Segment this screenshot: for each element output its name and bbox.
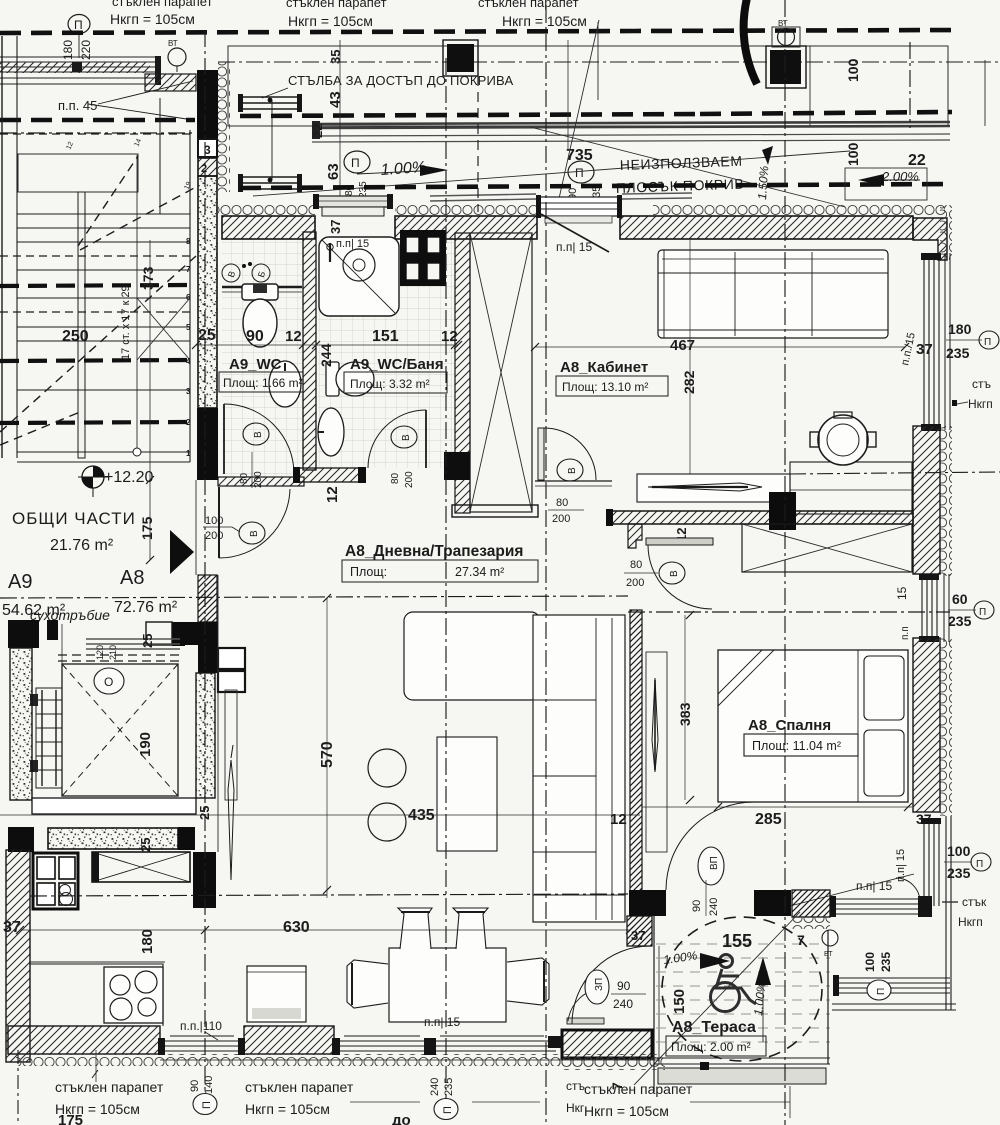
- bedroom door bubble B: [659, 562, 685, 584]
- svg-text:Площ: 13.10 m²: Площ: 13.10 m²: [562, 380, 648, 394]
- axis bubble П win2: [434, 1099, 458, 1120]
- svg-text:240: 240: [429, 1078, 441, 1096]
- parapet rail band: [312, 122, 950, 142]
- kabinet door bubble B: [557, 459, 583, 481]
- svg-text:В: В: [249, 530, 260, 537]
- svg-text:А8_Спалня: А8_Спалня: [748, 717, 831, 734]
- dim line y815: [0, 814, 640, 816]
- terrace area box: [666, 1036, 766, 1056]
- dark window grid 2x2: [400, 230, 446, 286]
- svg-text:25: 25: [140, 634, 155, 648]
- svg-text:35: 35: [328, 50, 343, 64]
- svg-text:1.50%: 1.50%: [755, 165, 771, 200]
- terrace parapet band: [658, 1068, 826, 1084]
- insulation strip left wall: [218, 62, 230, 192]
- svg-text:60: 60: [952, 591, 968, 607]
- chaise lounge: [404, 612, 540, 700]
- living area box: [342, 560, 538, 582]
- wall face living bottom interior: [30, 961, 165, 963]
- svg-text:5: 5: [186, 323, 191, 332]
- window D bedroom bottom: [834, 899, 928, 914]
- concrete column speckled: [198, 176, 217, 408]
- pillow 1: [864, 656, 904, 720]
- svg-text:100: 100: [863, 952, 877, 972]
- corner window arc mark: [896, 878, 920, 902]
- svg-text:27.34 m²: 27.34 m²: [455, 565, 504, 579]
- svg-text:1.00%: 1.00%: [380, 159, 426, 179]
- window C bedroom right: [924, 822, 939, 906]
- elevator O bubble: [94, 668, 124, 694]
- svg-text:А9_WC/Баня: А9_WC/Баня: [350, 356, 444, 373]
- svg-text:п.п| 15: п.п| 15: [336, 238, 369, 250]
- pouf circle 2: [368, 803, 406, 841]
- door arc living-terrace big: [572, 946, 650, 1024]
- dining table: [389, 948, 506, 1022]
- svg-text:80: 80: [390, 472, 401, 484]
- slope box 2.00%: [845, 168, 927, 200]
- axis horizontal y896: [30, 894, 628, 896]
- right wall hatch top (kabinet corner): [913, 218, 947, 260]
- kitchen counter bottom-left: [30, 964, 163, 1026]
- shaft bottom wall: [452, 505, 538, 517]
- svg-text:180: 180: [139, 929, 156, 954]
- svg-text:ВП: ВП: [709, 856, 720, 870]
- duct box 2: [198, 158, 217, 176]
- right insulation strip seg3: [940, 638, 952, 816]
- right corner frame: [945, 816, 947, 1010]
- svg-text:А9_WC: А9_WC: [229, 356, 282, 373]
- dim line vertical x597: [567, 40, 569, 150]
- roof thick dashed overlays on stair: [0, 285, 190, 423]
- svg-text:100: 100: [845, 142, 861, 166]
- hall wall black stub: [172, 622, 218, 645]
- roof section thick dashed line 1: [0, 30, 955, 33]
- svg-text:П: П: [74, 18, 83, 32]
- svg-text:п.п| 15: п.п| 15: [556, 240, 592, 254]
- svg-text:П: П: [876, 988, 887, 995]
- svg-text:467: 467: [670, 337, 695, 354]
- svg-text:П: П: [575, 166, 584, 180]
- svg-text:435: 435: [408, 807, 435, 824]
- svg-text:п.п: п.п: [900, 626, 911, 640]
- svg-text:200: 200: [404, 471, 415, 488]
- wall T-stub: [628, 524, 642, 548]
- svg-text:151: 151: [372, 328, 399, 345]
- insulation scallop band top wall seg1: [218, 204, 315, 216]
- svg-text:П: П: [979, 607, 986, 618]
- niche wall lines below shaft: [535, 480, 612, 482]
- svg-text:6: 6: [186, 293, 191, 302]
- WC sink: [269, 361, 301, 407]
- svg-text:80: 80: [556, 497, 568, 509]
- axis bubble П top-left: [68, 15, 90, 34]
- svg-text:235: 235: [948, 613, 972, 629]
- axis vertical x445: [445, 58, 447, 1098]
- axis vertical x478 top dashes: [477, 60, 479, 212]
- left exterior wall hatch: [6, 850, 30, 1062]
- terrace door ВП arc: [666, 802, 754, 890]
- svg-text:25: 25: [138, 838, 153, 852]
- svg-text:80: 80: [630, 559, 642, 571]
- hall cabinet boxes: [218, 648, 245, 669]
- svg-text:О: О: [104, 675, 113, 689]
- svg-text:37: 37: [916, 341, 933, 358]
- svg-text:Площ: 11.04 m²: Площ: 11.04 m²: [752, 739, 841, 753]
- axis vertical x205: [204, 30, 206, 1094]
- door bubble B entrance: [239, 522, 265, 544]
- svg-text:12: 12: [285, 328, 302, 345]
- svg-text:стъклен парапет: стъклен парапет: [478, 0, 579, 10]
- vent circle terrace: [822, 930, 838, 946]
- slope diagonal line right: [530, 127, 845, 207]
- svg-text:240: 240: [613, 997, 633, 1011]
- svg-text:3: 3: [186, 387, 191, 396]
- svg-text:до: до: [392, 1112, 411, 1125]
- svg-text:п.п.|110: п.п.|110: [180, 1019, 222, 1033]
- svg-text:П: П: [976, 859, 983, 870]
- svg-text:37: 37: [631, 928, 645, 943]
- svg-text:стък: стък: [962, 895, 987, 909]
- banya door arc: [368, 410, 426, 468]
- entrance door leaf: [218, 487, 220, 558]
- bedroom area box: [744, 734, 858, 756]
- X-brace cabinet: [92, 852, 190, 882]
- svg-text:Нкгп = 105см: Нкгп = 105см: [502, 13, 587, 29]
- svg-text:630: 630: [283, 919, 310, 936]
- black duct in wall: [769, 492, 796, 530]
- stair right boundary line: [189, 130, 191, 462]
- sofa vertical: [533, 615, 625, 922]
- terrace deck lines: [656, 944, 830, 1042]
- landing circle: [133, 448, 141, 456]
- svg-text:175: 175: [139, 516, 155, 540]
- svg-text:П: П: [201, 1101, 213, 1109]
- roof section thick dashed line 2: [0, 118, 195, 123]
- terrace right edge: [827, 930, 829, 1064]
- svg-text:стъклен парапет: стъклен парапет: [286, 0, 387, 10]
- svg-text:90: 90: [691, 900, 703, 912]
- WC bubbles: [222, 264, 240, 282]
- elevator car: [62, 664, 178, 796]
- plant shape: [225, 690, 237, 800]
- WC area box: [219, 372, 303, 392]
- roof ladder upper: [238, 97, 302, 109]
- entrance door swing arc: [219, 489, 290, 558]
- dining chair left: [347, 960, 388, 1008]
- svg-text:190: 190: [137, 732, 154, 757]
- WC door leaf: [223, 404, 225, 474]
- dining chair top1: [398, 908, 432, 949]
- WC door arc: [224, 404, 294, 474]
- window A kabinet right: [924, 258, 939, 426]
- svg-text:373: 373: [140, 266, 156, 290]
- svg-text:стъ: стъ: [972, 377, 991, 391]
- left shaft wall speckled: [10, 648, 32, 800]
- svg-text:155: 155: [722, 931, 752, 951]
- svg-text:235: 235: [879, 952, 893, 972]
- black column living corner: [193, 852, 216, 908]
- svg-text:570: 570: [319, 741, 336, 768]
- svg-text:17 ст. х 17 к 29: 17 ст. х 17 к 29: [120, 285, 132, 360]
- window kitchen п.п.110: [162, 1041, 242, 1051]
- benchmark +12.20: [82, 466, 104, 488]
- svg-text:ВТ: ВТ: [824, 951, 833, 958]
- stair stringer: [78, 192, 85, 458]
- roof parapet bars above kabinet: [430, 193, 692, 201]
- svg-text:22: 22: [310, 124, 325, 138]
- svg-text:ВТ: ВТ: [168, 39, 178, 48]
- axis bubble П win1: [193, 1094, 217, 1115]
- parapet band left: [0, 57, 160, 84]
- window B outer frame: [943, 574, 945, 642]
- svg-text:100: 100: [205, 515, 223, 527]
- terrace right window D2: [836, 978, 950, 993]
- kabinet sofa: [658, 250, 888, 338]
- svg-text:Площ: 1.66 m²: Площ: 1.66 m²: [223, 376, 303, 390]
- dining chair right: [507, 958, 549, 1005]
- ВП bubble: [698, 847, 724, 885]
- svg-text:43: 43: [327, 91, 344, 108]
- bed: [718, 650, 908, 802]
- banya sink: [318, 408, 344, 456]
- svg-text:15: 15: [895, 586, 909, 600]
- chain axis kabinet counter: [790, 472, 1000, 474]
- steep leader line: [556, 20, 599, 212]
- kabinet desk: [637, 474, 790, 502]
- svg-text:п.п| 15: п.п| 15: [424, 1015, 460, 1029]
- sill lines below windows: [160, 1059, 660, 1061]
- svg-text:244: 244: [318, 343, 334, 367]
- svg-text:А9: А9: [8, 571, 32, 593]
- stair number labels: [186, 237, 191, 458]
- black square chimney right: [766, 46, 806, 88]
- living terrace door leaf: [567, 1018, 604, 1024]
- dining chair top2: [453, 908, 488, 949]
- cooking pot: [818, 415, 868, 465]
- svg-text:12: 12: [324, 486, 341, 503]
- right wall hatch bedroom: [913, 638, 940, 812]
- stair upper landing rect: [18, 154, 138, 192]
- duct box 3: [198, 139, 217, 157]
- bedroom bottom wall black R: [754, 890, 791, 916]
- svg-text:250: 250: [62, 328, 89, 345]
- bottom exterior wall hatch: [8, 1026, 160, 1054]
- svg-text:стъ: стъ: [566, 1079, 585, 1093]
- svg-text:Нкгп = 105см: Нкгп = 105см: [288, 13, 373, 29]
- shower cabin: [319, 237, 399, 316]
- svg-text:210: 210: [108, 645, 118, 660]
- roof edge rectangle: [228, 46, 948, 126]
- svg-text:п.п. 45: п.п. 45: [58, 98, 97, 113]
- svg-text:63: 63: [325, 163, 342, 180]
- black curved pipe top: [744, 0, 757, 84]
- roof ladder lower: [238, 177, 302, 189]
- right insulation strip seg1: [940, 205, 952, 260]
- svg-text:235: 235: [946, 345, 970, 361]
- hatched block left of wall: [145, 74, 196, 91]
- insulation scallop band top wall seg2: [395, 204, 538, 216]
- bottom wall hatch pier mid: [244, 1026, 334, 1054]
- svg-text:ЗП: ЗП: [594, 978, 605, 991]
- roof section thick dashed line 3: [240, 184, 952, 188]
- svg-text:90: 90: [246, 328, 264, 345]
- svg-text:стъклен парапет: стъклен парапет: [112, 0, 213, 9]
- svg-text:Нкг: Нкг: [566, 1101, 585, 1115]
- WC floor tiles: [222, 240, 302, 476]
- svg-text:12: 12: [610, 811, 627, 828]
- hall wall hatch above corridor: [198, 575, 217, 622]
- wall between WC and Banya: [303, 232, 316, 470]
- coffee table: [437, 737, 497, 851]
- axis bubble П mid: [568, 161, 594, 183]
- svg-text:Нкгп: Нкгп: [958, 915, 983, 929]
- svg-text:100: 100: [845, 58, 861, 82]
- window B 60: [922, 578, 937, 638]
- window A outer frame: [944, 253, 946, 430]
- hatched top wall seg3: [620, 216, 913, 239]
- shaft box with X: [470, 233, 532, 512]
- svg-text:21.76 m²: 21.76 m²: [50, 537, 114, 554]
- stair cross brace X: [137, 298, 190, 360]
- axis bubble П small w numbers 43/35/22/63: [344, 151, 370, 173]
- dim line bottom: [350, 1101, 420, 1103]
- slope diagonal line long: [253, 151, 850, 196]
- insulation scallop band bottom: [16, 1054, 661, 1066]
- stair treads: [17, 214, 190, 462]
- svg-text:В: В: [253, 431, 264, 438]
- svg-text:Площ: 3.32 m²: Площ: 3.32 m²: [350, 377, 430, 391]
- left wall black bottom: [197, 408, 218, 480]
- pouf circle 1: [368, 749, 406, 787]
- thin dashed line left: [0, 133, 195, 135]
- dim line WC row: [196, 344, 458, 346]
- svg-text:Нкгп: Нкгп: [968, 397, 993, 411]
- slope arrow right: [420, 165, 448, 176]
- ЗП bubble: [585, 970, 609, 1004]
- svg-text:В: В: [401, 434, 412, 441]
- concrete band below elevator: [48, 828, 178, 849]
- blanket fold: [718, 650, 762, 694]
- bedroom door arc: [648, 545, 712, 609]
- terrace left edge: [653, 916, 655, 1092]
- axis vertical x18 bottom: [17, 1050, 19, 1125]
- axis vertical x785: [784, 0, 786, 1125]
- roof access door window: [315, 196, 391, 207]
- axis horizontal y597 left: [0, 596, 628, 598]
- wall face corridor: [195, 480, 197, 575]
- svg-text:2: 2: [201, 163, 207, 175]
- hatched top wall seg1: [222, 216, 315, 239]
- top window to kabinet: [538, 197, 620, 216]
- kabinet-living door leaf: [538, 428, 544, 480]
- wall face living left: [217, 575, 219, 852]
- WC bottom wall: [218, 477, 304, 486]
- kitchen cabinets small grid: [33, 853, 78, 909]
- svg-text:А8_Дневна/Трапезария: А8_Дневна/Трапезария: [345, 543, 523, 560]
- svg-text:72.76 m²: 72.76 m²: [114, 599, 178, 616]
- terrace bottom edge: [654, 1057, 830, 1059]
- svg-text:П: П: [442, 1106, 454, 1114]
- living-kabinet dividing wall hatched: [612, 511, 913, 524]
- column hall speckled: [196, 673, 215, 798]
- elevator door tracks: [86, 638, 180, 640]
- svg-text:ОБЩИ ЧАСТИ: ОБЩИ ЧАСТИ: [12, 509, 136, 528]
- svg-text:235: 235: [443, 1078, 455, 1096]
- svg-text:90: 90: [189, 1080, 201, 1092]
- axis horizontal y612 right: [628, 611, 950, 613]
- svg-text:2: 2: [186, 418, 191, 427]
- stair left edge wall lines: [1, 36, 3, 458]
- elevator top wall black left: [8, 620, 39, 648]
- svg-text:сухотръбие: сухотръбие: [30, 607, 110, 623]
- svg-text:2.00%: 2.00%: [881, 169, 919, 184]
- svg-text:СТЪЛБА ЗА ДОСТЪП ДО ПОКРИВА: СТЪЛБА ЗА ДОСТЪП ДО ПОКРИВА: [288, 73, 513, 88]
- tread dashed thin overlays: [0, 256, 190, 312]
- svg-text:стъклен парапет: стъклен парапет: [55, 1079, 164, 1095]
- stair diagonal dashed guides: [0, 156, 196, 445]
- svg-text:200: 200: [626, 577, 644, 589]
- bedroom bottom wall black L: [629, 890, 666, 916]
- dashed ellipse turning circle: [662, 917, 822, 1061]
- svg-text:П: П: [351, 156, 360, 170]
- svg-text:180: 180: [948, 321, 972, 337]
- axis horizontal y133 left: [0, 132, 196, 134]
- svg-text:А8_Тераса: А8_Тераса: [672, 1019, 756, 1036]
- black square chimney mid: [443, 40, 478, 76]
- right insulation strip seg2: [940, 426, 952, 576]
- Banya floor tiles: [318, 240, 455, 468]
- kabinet-living door arc: [544, 428, 596, 480]
- terrace slope diagonal: [634, 912, 800, 1085]
- living-terrace wall hatch block 37: [627, 916, 652, 946]
- svg-text:90: 90: [617, 979, 631, 993]
- banya toilet: [326, 362, 339, 396]
- banya door bubble B: [391, 426, 417, 448]
- tv cabinet: [646, 652, 667, 852]
- svg-text:стъклен парапет: стъклен парапет: [584, 1081, 693, 1097]
- WC door bubble B: [243, 423, 269, 445]
- svg-text:Площ: 2.00 m²: Площ: 2.00 m²: [671, 1040, 751, 1054]
- svg-text:В: В: [669, 570, 680, 577]
- right wall hatch mid: [913, 426, 940, 574]
- svg-text:200: 200: [205, 530, 223, 542]
- elevator bottom wall: [32, 798, 196, 814]
- insulation scallop band top wall seg3: [653, 204, 945, 216]
- svg-text:120: 120: [95, 645, 105, 660]
- pillow 2: [864, 730, 904, 796]
- bedroom door leaf: [646, 538, 713, 545]
- svg-text:7: 7: [186, 265, 191, 274]
- banya area box: [344, 372, 447, 393]
- svg-text:Нкгп = 105см: Нкгп = 105см: [110, 11, 195, 27]
- kabinet area box: [556, 376, 668, 396]
- axis vertical x910 top: [909, 42, 911, 128]
- svg-text:А8_Кабинет: А8_Кабинет: [560, 359, 648, 376]
- svg-text:240: 240: [708, 898, 720, 916]
- svg-text:22: 22: [908, 152, 926, 169]
- dry riser ladder: [36, 688, 62, 788]
- bedroom left wall hatch: [630, 610, 642, 892]
- wardrobe X bedroom: [742, 524, 912, 572]
- svg-text:37: 37: [328, 220, 343, 234]
- elevator top wall black right: [172, 645, 185, 646]
- svg-text:П: П: [984, 337, 991, 348]
- svg-text:282: 282: [681, 370, 697, 394]
- terrace access door from living: [562, 1030, 652, 1058]
- chain axis horizontal y62: [218, 61, 1000, 63]
- wheelchair symbol: [711, 955, 757, 1012]
- WC shelf: [222, 286, 302, 288]
